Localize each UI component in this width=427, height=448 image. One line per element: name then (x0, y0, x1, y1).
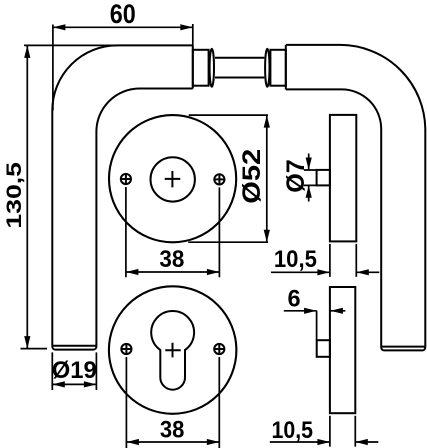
dim 10,5 lower lines (270, 441, 379, 443)
arrowhead 130,5 top (24, 45, 30, 58)
lower left screw (121, 344, 132, 355)
arrowhead O52 top (264, 115, 270, 128)
right cap lens (265, 49, 269, 87)
arrowhead 60 right (180, 24, 193, 30)
dim 10,5 lower extension lines (330, 416, 355, 447)
left lever neck end (192, 45, 194, 88)
arrowhead 38 upper right (207, 269, 220, 275)
dim O19 extension lines (52, 352, 96, 390)
left grip end cap (52, 346, 96, 350)
dim 60 line (53, 26, 193, 28)
svg-text:10,5: 10,5 (272, 417, 314, 444)
euro profile keyhole (151, 311, 194, 390)
lower rosette center cross (165, 343, 180, 358)
upper rosette circle (109, 115, 236, 242)
svg-text:Ø19: Ø19 (52, 357, 97, 384)
arrowhead 10,5 lower right (355, 439, 368, 445)
right lever neck end (285, 45, 287, 90)
dim 38 upper extension lines (126, 187, 219, 277)
arrowhead 6 right-pointing (304, 308, 317, 314)
lower side-view rosette (330, 287, 355, 413)
dim O52 extension lines (188, 115, 268, 242)
arrowhead 130,5 bottom (24, 336, 30, 349)
dim O7 arrow lines and extensions (304, 154, 317, 202)
arrowhead O7 top (306, 158, 312, 171)
dim O52 line (266, 115, 268, 242)
upper rosette center cross (165, 171, 181, 187)
arrowhead 38 lower right (207, 439, 220, 445)
dim 130,5 line (26, 45, 28, 348)
arrowhead 6 left-pointing (330, 308, 343, 314)
arrowhead 38 upper left (126, 269, 138, 275)
dim 38 upper line (126, 271, 219, 273)
dim 6 lines (284, 311, 346, 340)
lower rosette circle (109, 286, 237, 414)
svg-text:6: 6 (287, 286, 300, 313)
svg-text:38: 38 (160, 417, 185, 444)
arrowhead O19 right (84, 381, 97, 387)
left cap lens (210, 49, 214, 87)
dim 38 lower extension lines (126, 357, 219, 448)
dim O19 line (52, 383, 96, 385)
svg-text:130,5: 130,5 (2, 162, 26, 229)
spindle (215, 58, 264, 78)
lower side-view cylinder stub (317, 340, 330, 357)
dim 10,5 upper extension lines (330, 244, 356, 277)
arrowhead 10,5 upper left (317, 269, 330, 275)
arrowhead 60 left (53, 24, 66, 30)
upper side-view spindle stub (317, 170, 330, 186)
upper left screw (120, 174, 131, 185)
right grip end cap (381, 347, 425, 351)
dim 60 extension lines (53, 24, 193, 111)
left lever outer contour (52, 45, 193, 345)
left collar (193, 50, 209, 86)
dim 130,5 extension lines (21, 45, 119, 348)
svg-text:Ø52: Ø52 (238, 149, 266, 204)
right lever inner contour (286, 89, 381, 346)
arrowhead 10,5 lower left (317, 439, 330, 445)
svg-text:Ø7: Ø7 (282, 159, 310, 193)
arrowhead 38 lower left (126, 439, 138, 445)
arrowhead O19 left (52, 381, 65, 387)
lower right screw (214, 344, 225, 355)
right collar (270, 50, 285, 86)
upper side-view rosette (330, 115, 356, 241)
dim 38 lower line (126, 441, 219, 443)
right lever outer contour (286, 45, 426, 347)
arrowhead O7 bottom (306, 185, 312, 198)
svg-text:60: 60 (110, 0, 136, 29)
arrowhead O52 bottom (264, 230, 270, 243)
svg-text:38: 38 (159, 246, 184, 273)
upper rosette inner circle (151, 157, 195, 201)
dim 10,5 upper lines (271, 271, 379, 273)
svg-text:10,5: 10,5 (274, 246, 317, 273)
upper right screw (214, 174, 225, 185)
left lever inner contour (96, 88, 192, 345)
arrowhead 10,5 upper right (356, 269, 369, 275)
